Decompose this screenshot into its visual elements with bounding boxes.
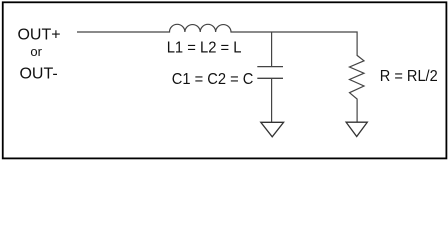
svg-text:OUT+: OUT+ (17, 27, 60, 44)
svg-text:or: or (30, 44, 42, 59)
svg-text:OUT-: OUT- (19, 66, 57, 83)
svg-text:C1 = C2 = C: C1 = C2 = C (172, 71, 254, 88)
svg-text:L1 = L2 = L: L1 = L2 = L (167, 40, 242, 57)
svg-text:R = RL/2: R = RL/2 (380, 68, 438, 85)
